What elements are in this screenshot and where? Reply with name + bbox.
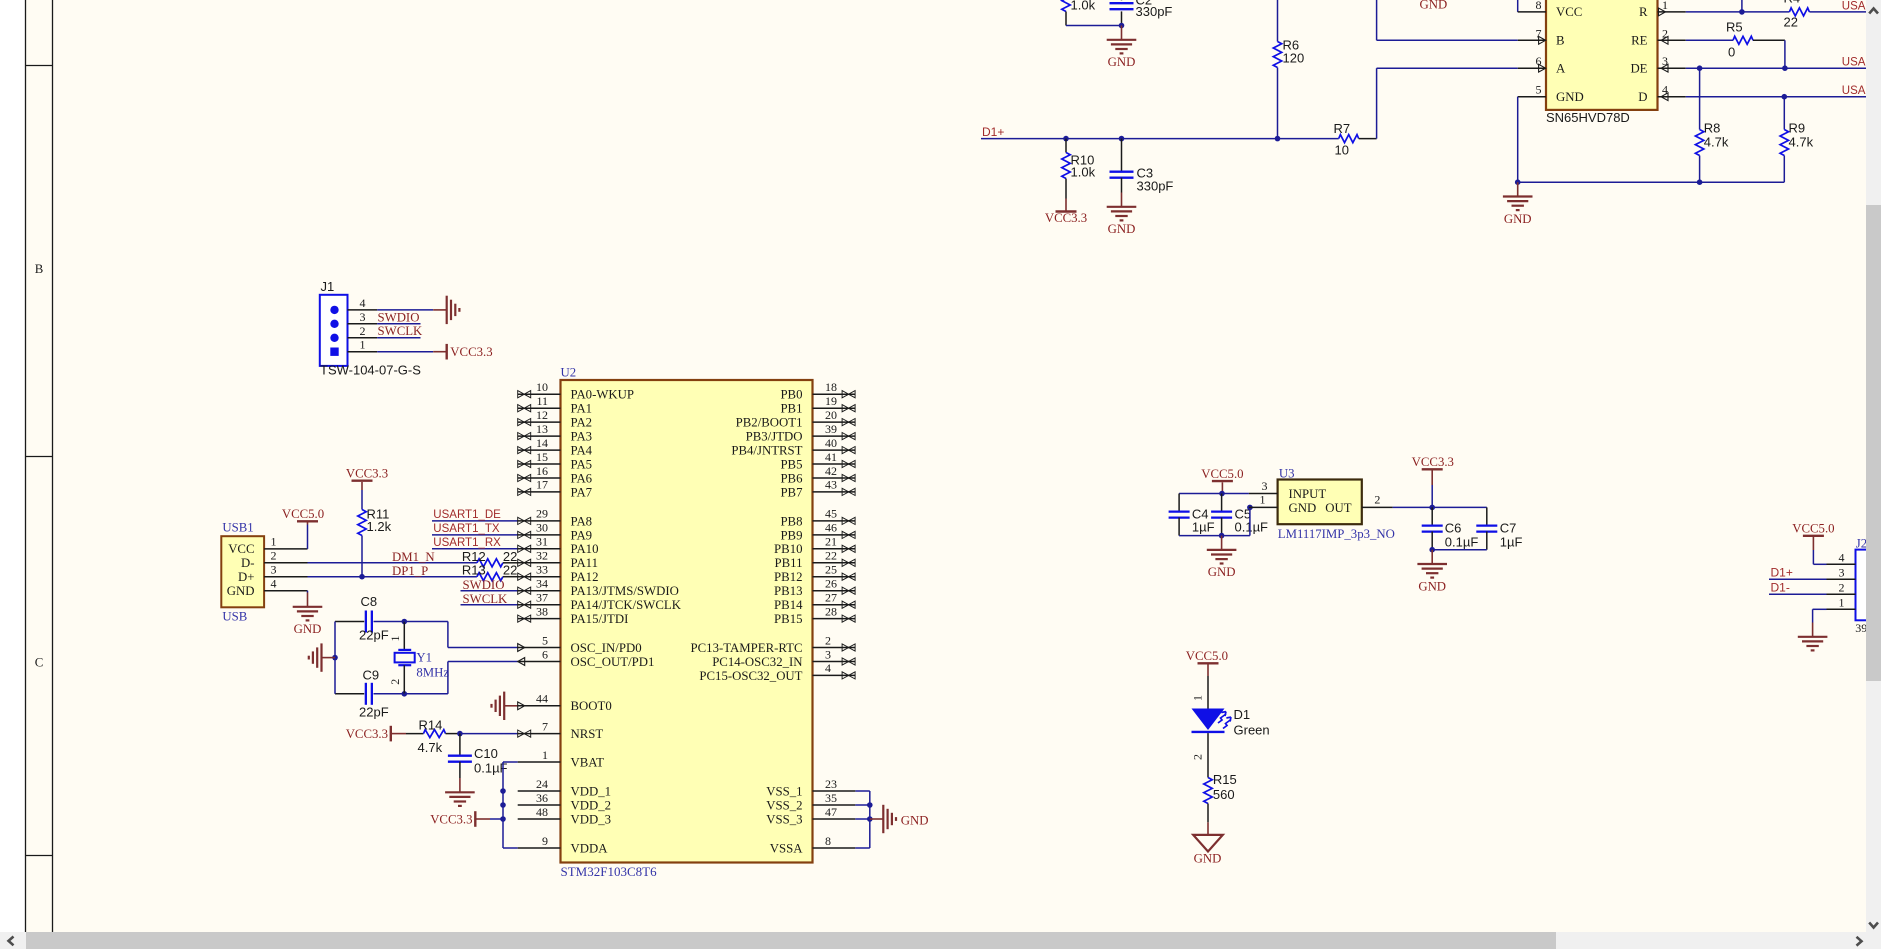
power port VCC3.3 above R11 [352,480,373,482]
wire net SWCLK stub at U2 [461,604,518,606]
svg-text:11: 11 [536,394,548,408]
svg-text:1: 1 [1662,0,1668,12]
junction at C2/R2 [1119,23,1125,29]
U2 pin 30 PA9 [518,534,561,536]
junction NRST/C10 [457,731,463,737]
wire VCC pin 8 rising off-sheet [1517,0,1519,12]
svg-text:0.1µF: 0.1µF [1235,519,1269,534]
ground symbol below C3 [1121,193,1123,207]
wire net D1- to J2 pin 2 [1769,593,1827,595]
svg-text:GND: GND [1556,90,1584,104]
U2 pin 41 PB5 [813,463,856,465]
U2 pin 10 PA0-WKUP [518,393,561,395]
svg-text:32: 32 [536,549,548,563]
svg-text:D1: D1 [1234,707,1251,722]
svg-text:PA6: PA6 [571,471,593,485]
svg-text:1µF: 1µF [1192,519,1215,534]
U2 pin 21 PB10 [813,548,856,550]
svg-text:5: 5 [1536,83,1542,97]
svg-text:VCC3.3: VCC3.3 [1412,455,1454,469]
J2 pin 2 [1827,593,1856,595]
svg-text:PC13-TAMPER-RTC: PC13-TAMPER-RTC [691,641,803,655]
svg-text:R5: R5 [1726,20,1743,35]
svg-text:STM32F103C8T6: STM32F103C8T6 [561,864,658,879]
svg-text:TSW-104-07-G-S: TSW-104-07-G-S [320,363,421,378]
wire net D1+ to J2 pin 3 [1769,578,1827,580]
svg-text:PA7: PA7 [571,485,593,499]
ground symbol below C10 [459,778,461,792]
USB1 pin 1 VCC [264,548,307,550]
U2 pin 47 VSS_3 [813,818,856,820]
svg-text:B: B [1556,34,1565,48]
U2 pin 37 PA14/JTCK/SWCLK [518,604,561,606]
U2 pin 19 PB1 [813,407,856,409]
svg-text:PB11: PB11 [775,556,803,570]
wire crystal left rail [334,622,336,694]
junction input rail [1219,491,1225,497]
svg-text:25: 25 [825,563,837,577]
svg-text:17: 17 [536,478,548,492]
svg-text:39: 39 [1855,621,1867,635]
svg-text:INPUT: INPUT [1289,487,1327,501]
U2 pin 12 PA2 [518,421,561,423]
junction D/R9 [1782,94,1788,100]
svg-text:B: B [35,262,44,276]
U2 pin 11 PA1 [518,407,561,409]
svg-text:2: 2 [360,324,366,338]
svg-text:42: 42 [825,464,837,478]
svg-text:8: 8 [1536,0,1542,12]
svg-text:2: 2 [1839,580,1845,594]
ground symbol at J1 pin4 [433,309,447,311]
svg-text:PB0: PB0 [780,388,802,402]
svg-text:6: 6 [1536,54,1542,68]
svg-text:SWCLK: SWCLK [463,592,509,606]
resistor R15, 560 [1204,778,1212,804]
ground rail wire [1518,181,1785,183]
U1 pin 2 RE [1658,39,1686,41]
U2 pin 18 PB0 [813,393,856,395]
svg-text:C8: C8 [361,594,378,609]
svg-text:14: 14 [536,436,548,450]
USB1 pin 4 GND [264,590,307,592]
U2 pin 16 PA6 [518,477,561,479]
svg-text:PA14/JTCK/SWCLK: PA14/JTCK/SWCLK [571,598,682,612]
svg-text:D1+: D1+ [982,125,1004,139]
horizontal scrollbar thumb [26,932,1556,949]
svg-text:PB3/JTDO: PB3/JTDO [746,430,803,444]
svg-text:22: 22 [825,549,837,563]
U2 pin 36 VDD_2 [518,804,561,806]
resistor R11, 1.2k [361,482,363,490]
svg-text:3: 3 [1839,565,1845,579]
svg-text:39: 39 [825,422,837,436]
svg-text:PB12: PB12 [774,570,802,584]
junction at U3 GND pin [1247,505,1253,511]
junction D1+/R10 [1063,136,1069,142]
svg-text:GND: GND [1108,222,1136,236]
svg-text:PA15/JTDI: PA15/JTDI [571,612,629,626]
U2 pin 17 PA7 [518,491,561,493]
svg-text:PA9: PA9 [571,528,593,542]
U2 pin 35 VSS_2 [813,804,856,806]
svg-text:28: 28 [825,604,837,618]
junction VDD_3 [500,816,506,822]
vertical scrollbar up arrow [1869,9,1878,14]
svg-text:PB7: PB7 [780,485,803,499]
svg-text:VSS_2: VSS_2 [766,798,802,812]
junction ground rail / C5 [1219,533,1225,539]
connector J2 body (clipped) [1856,550,1881,621]
svg-text:GND: GND [1420,0,1448,12]
capacitor C6, 0.1uF [1431,507,1433,525]
svg-text:VSSA: VSSA [770,841,803,855]
junction VDD_1 [500,788,506,794]
junction rail/GND [1515,179,1521,185]
U2 pin 31 PA10 [518,548,561,550]
capacitor C2, 330pF [1121,0,1123,1]
svg-text:560: 560 [1213,787,1235,802]
svg-text:4.7k: 4.7k [1704,134,1729,149]
svg-text:C7: C7 [1500,520,1517,535]
svg-text:330pF: 330pF [1136,4,1173,19]
svg-text:PB2/BOOT1: PB2/BOOT1 [736,416,803,430]
capacitor C8, 22pF [335,621,364,623]
svg-text:1.2k: 1.2k [367,519,392,534]
svg-text:37: 37 [536,591,548,605]
svg-text:VCC5.0: VCC5.0 [1186,649,1228,663]
U2 pin 7 NRST [518,733,561,735]
power port VCC5.0 at J2 [1803,535,1824,537]
connector J1 body TSW-104-07-G-S [320,295,348,366]
vertical scrollbar track [1866,0,1881,949]
svg-text:7: 7 [542,719,548,733]
wire VCC5.0 to D1 anode [1207,676,1209,709]
svg-text:16: 16 [536,464,548,478]
junction bottom rail / Y1 [402,691,408,697]
svg-text:PA1: PA1 [571,402,593,416]
resistor R7, 10 [1339,135,1359,143]
power port VCC3.3 at R14 [390,726,392,742]
svg-text:9: 9 [542,834,548,848]
U3 pin 3 INPUT [1249,493,1278,495]
U3 pin 1 GND [1249,506,1278,508]
junction output ground rail [1429,547,1435,553]
svg-text:4: 4 [360,296,366,310]
svg-text:PB10: PB10 [774,542,802,556]
svg-text:Green: Green [1234,722,1270,737]
resistor R13, 22 [477,573,503,581]
svg-text:44: 44 [536,692,548,706]
horizontal scrollbar right arrow [1857,937,1862,946]
ground symbol power-gnd triangle below R15 [1207,822,1209,835]
svg-text:PA12: PA12 [571,570,599,584]
U2 pin 33 PA12 [518,576,561,578]
capacitor C5, 0.1uF [1221,494,1223,512]
svg-text:1: 1 [1191,695,1205,701]
U2 pin 28 PB15 [813,618,856,620]
svg-text:PA10: PA10 [571,542,599,556]
wire vertical to B net off-sheet [1376,0,1378,40]
svg-text:VDDA: VDDA [571,841,609,855]
ground symbol at crystal [322,657,336,659]
svg-text:PA2: PA2 [571,416,593,430]
svg-text:R7: R7 [1334,121,1351,136]
U1 pin 6 A [1518,67,1546,69]
svg-text:12: 12 [536,408,548,422]
wire R4 to sheet edge [1809,11,1866,13]
capacitor C10, 0.1uF [459,734,461,756]
vertical scrollbar down arrow [1869,923,1878,928]
U2 pin 20 PB2/BOOT1 [813,421,856,423]
svg-text:Y1: Y1 [416,650,432,664]
wire input rail [1179,493,1249,495]
svg-text:PA8: PA8 [571,514,593,528]
svg-text:18: 18 [825,380,837,394]
ground symbol below J2 [1812,623,1814,637]
horizontal scrollbar track [0,932,1881,949]
capacitor C3, 330pF [1121,139,1123,172]
svg-text:PB9: PB9 [780,528,802,542]
U2 pin 45 PB8 [813,520,856,522]
USB1 pin 2 D- [264,562,307,564]
svg-text:R13: R13 [462,563,486,578]
U2 pin 6 OSC_OUT/PD1 [518,661,561,663]
svg-text:2: 2 [1662,26,1668,40]
svg-text:6: 6 [542,647,548,661]
svg-text:D-: D- [241,556,255,570]
svg-text:GND: GND [1504,212,1532,226]
wire net DP1_P from USB D+ to R13 [308,576,477,578]
svg-text:DE: DE [1630,62,1647,76]
svg-text:48: 48 [536,805,548,819]
svg-text:4.7k: 4.7k [1789,134,1814,149]
svg-text:VSS_3: VSS_3 [766,812,802,826]
svg-text:4: 4 [1839,550,1845,564]
U2 pin 43 PB7 [813,491,856,493]
svg-text:PB6: PB6 [780,471,803,485]
svg-text:VSS_1: VSS_1 [766,784,802,798]
svg-text:4: 4 [271,577,277,591]
svg-text:USB1: USB1 [222,520,253,534]
U2 pin 2 PC13-TAMPER-RTC [813,647,856,649]
svg-text:10: 10 [1335,142,1349,157]
svg-text:DP1_P: DP1_P [392,564,428,578]
U2 pin 40 PB4/JNTRST [813,449,856,451]
svg-text:3: 3 [360,310,366,324]
svg-text:OSC_OUT/PD1: OSC_OUT/PD1 [571,655,655,669]
svg-text:NRST: NRST [571,727,604,741]
junction VSS_3 [867,816,873,822]
svg-text:U2: U2 [561,365,577,379]
wire net D1+ [981,138,1339,140]
ground symbol below USB1 [307,593,309,607]
J1 pin 2 [348,337,378,339]
svg-text:OSC_IN/PD0: OSC_IN/PD0 [571,641,642,655]
svg-text:SWDIO: SWDIO [463,578,505,592]
svg-text:40: 40 [825,436,837,450]
J2 pin 3 [1827,578,1856,580]
USB1 pin 3 D+ [264,576,307,578]
svg-text:GND: GND [901,813,929,827]
connector USB1 body [221,536,264,607]
wire net DM1_N from USB D- to R12 [308,562,477,564]
wire into pin 6 A [1377,67,1518,69]
wire net SWDIO stub at J1 [377,323,420,325]
svg-text:10: 10 [536,380,548,394]
svg-text:A: A [1556,62,1566,76]
wire bottom rail to OSC_OUT [404,693,448,695]
svg-text:VCC3.3: VCC3.3 [430,812,472,826]
power port VCC3.3 at VDD_3 [474,811,476,827]
svg-text:2: 2 [388,679,402,685]
svg-text:J1: J1 [321,279,335,294]
U1 pin 3 DE [1658,67,1686,69]
U2 pin 32 PA11 [518,562,561,564]
svg-text:8MHz: 8MHz [416,666,449,680]
svg-text:4: 4 [1662,83,1668,97]
power port VCC3.3 at U3 output [1422,468,1443,470]
resistor R5, 0 [1733,36,1753,44]
svg-text:2: 2 [271,549,277,563]
U2 pin 4 PC15-OSC32_OUT [813,674,856,676]
wire J2 pin 1 to ground [1813,608,1827,610]
svg-text:3: 3 [1262,479,1268,493]
svg-text:USART1_DE: USART1_DE [433,509,501,521]
U2 pin 29 PA8 [518,520,561,522]
svg-text:2: 2 [825,633,831,647]
svg-text:PB4/JNTRST: PB4/JNTRST [731,444,802,458]
wire pin5 GND down [1517,97,1519,183]
svg-text:VDD_2: VDD_2 [571,798,612,812]
svg-text:PC15-OSC32_OUT: PC15-OSC32_OUT [699,669,802,683]
wire VSS bus vertical [869,791,871,848]
power port VCC5.0 at U3 input [1212,480,1233,482]
junction D1+/C3 [1119,136,1125,142]
svg-text:36: 36 [536,791,548,805]
U2 pin 8 VSSA [813,847,856,849]
svg-text:4.7k: 4.7k [418,740,443,755]
power port VCC5.0 at USB1 [297,520,318,522]
svg-text:8: 8 [825,834,831,848]
svg-text:30: 30 [536,521,548,535]
svg-text:45: 45 [825,507,837,521]
resistor R6, 120 [1277,0,1279,42]
U1 pin 7 B [1518,39,1546,41]
wire R2 to C2 junction [1066,25,1122,27]
svg-text:D1-: D1- [1771,580,1790,594]
svg-text:LM1117IMP_3p3_NO: LM1117IMP_3p3_NO [1278,527,1395,541]
U2 pin 24 VDD_1 [518,790,561,792]
U2 pin 22 PB11 [813,562,856,564]
svg-text:0.1µF: 0.1µF [1445,535,1479,550]
regulator U3 body [1278,480,1362,525]
svg-text:1.0k: 1.0k [1071,0,1096,13]
junction rail/R8 [1697,179,1703,185]
svg-text:D1+: D1+ [1771,565,1793,579]
power port VCC3.3 below R10 [1065,199,1067,212]
svg-text:VCC3.3: VCC3.3 [346,467,388,481]
svg-text:1: 1 [388,636,402,642]
svg-text:1µF: 1µF [1500,535,1523,550]
wire J1 pin4 to ground [377,309,433,311]
wire vertical from top to R junction [1741,0,1743,12]
U1 pin 4 D [1658,96,1686,98]
svg-text:R15: R15 [1213,772,1237,787]
svg-text:VCC5.0: VCC5.0 [282,507,324,521]
svg-text:USART1_TX: USART1_TX [433,523,500,535]
U3 pin 2 OUT [1362,506,1393,508]
svg-text:1: 1 [271,535,277,549]
svg-text:VBAT: VBAT [571,755,605,769]
J2 pin 1 [1827,608,1856,610]
resistor R2 (clipped at top), value 1.0k [1062,0,1070,12]
svg-text:VCC: VCC [228,542,254,556]
svg-text:R14: R14 [419,717,443,732]
power port VCC3.3 at J1 [446,344,448,360]
svg-text:GND: GND [1418,579,1446,593]
ground symbol below C4/C5 [1221,536,1223,550]
U1 pin 5 GND [1518,96,1546,98]
svg-text:PA5: PA5 [571,457,593,471]
svg-text:3: 3 [271,563,277,577]
svg-text:19: 19 [825,394,837,408]
crystal Y1, 8MHz [403,622,405,650]
wire R14 to NRST [460,733,518,735]
J1 pin 4 [348,309,378,311]
svg-text:31: 31 [536,535,548,549]
U2 pin 46 PB9 [813,534,856,536]
svg-text:1: 1 [1260,493,1266,507]
svg-text:41: 41 [825,450,837,464]
junction DE/R5 [1782,65,1788,71]
IC U1 SN65HVD78D body [1546,0,1658,110]
U2 pin 5 OSC_IN/PD0 [518,647,561,649]
U2 pin 26 PB13 [813,590,856,592]
wire output rail [1393,506,1487,508]
svg-text:PA3: PA3 [571,430,593,444]
wire pin2 RE to R5 [1686,39,1733,41]
svg-text:PC14-OSC32_IN: PC14-OSC32_IN [712,655,802,669]
junction DP1_P/R11 [359,574,365,580]
capacitor C7, 1uF [1486,507,1488,525]
svg-text:4: 4 [825,661,831,675]
U2 pin 13 PA3 [518,435,561,437]
svg-text:1: 1 [360,338,366,352]
resistor R4, 22 [1789,8,1809,16]
vertical scrollbar thumb [1866,205,1881,681]
svg-text:2: 2 [1191,754,1205,760]
svg-text:PA13/JTMS/SWDIO: PA13/JTMS/SWDIO [571,584,679,598]
svg-text:OUT: OUT [1325,501,1351,515]
svg-text:GND: GND [294,622,322,636]
svg-text:VDD_1: VDD_1 [571,784,612,798]
wire VCC5.0 to J2 pin 4 [1812,550,1814,564]
U2 pin 44 BOOT0 [518,705,561,707]
svg-text:VCC5.0: VCC5.0 [1792,522,1834,536]
U1 pin 8 VCC [1518,11,1546,13]
svg-text:21: 21 [825,535,837,549]
svg-text:U3: U3 [1279,467,1295,481]
svg-text:23: 23 [825,777,837,791]
svg-text:5: 5 [542,633,548,647]
junction DE/R8 [1697,65,1703,71]
svg-text:DM1_N: DM1_N [392,550,435,564]
junction left rail / ground [332,655,338,661]
svg-text:C6: C6 [1445,520,1462,535]
svg-text:43: 43 [825,478,837,492]
wire net USART1_TX stub [432,534,518,536]
